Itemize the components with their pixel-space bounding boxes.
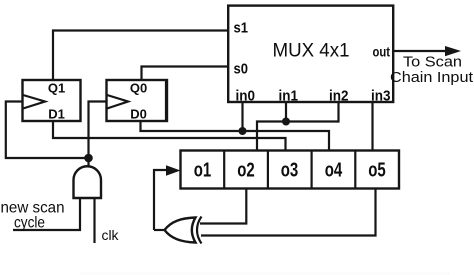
register cell divider o2/o3: [267, 151, 269, 189]
wire D1 to o3 top: [53, 121, 286, 151]
flip-flop FF1 body: [23, 80, 81, 121]
wire in2 to o2 top: [257, 102, 339, 151]
svg-text:D1: D1: [48, 107, 65, 122]
node junction in1: [282, 118, 290, 126]
svg-text:in3: in3: [371, 88, 391, 105]
svg-text:o5: o5: [368, 160, 386, 182]
wire xor output stub: [154, 229, 165, 231]
svg-text:Q0: Q0: [130, 81, 147, 96]
mux U1 body: [228, 6, 393, 102]
wire and-gate input new scan cycle: [13, 198, 80, 230]
wire clock feedback to FF0: [89, 102, 108, 168]
arrowhead o1 input: [166, 165, 181, 175]
wire o5 bottom to xor bottom input: [201, 189, 376, 236]
svg-text:in0: in0: [236, 88, 256, 105]
svg-text:s0: s0: [234, 61, 249, 78]
wire Q1 to s1: [53, 31, 229, 81]
svg-text:To Scan: To Scan: [403, 55, 462, 71]
svg-text:o2: o2: [237, 160, 255, 182]
node junction in0-D0: [239, 127, 247, 135]
flip-flop FF1 clock wedge: [23, 95, 45, 109]
wire in3 to o5 top: [371, 102, 373, 151]
wire D0 to o4 top: [141, 121, 330, 151]
svg-text:in2: in2: [329, 88, 349, 105]
arrowhead out: [445, 46, 461, 56]
and-gate G1 body: [74, 166, 102, 198]
register cell divider o3/o4: [311, 151, 313, 189]
wire Q0 to s0: [142, 67, 230, 81]
flip-flop FF0 body: [107, 80, 168, 121]
svg-text:o4: o4: [325, 160, 343, 182]
register cell divider o1/o2: [223, 151, 225, 189]
svg-text:out: out: [373, 45, 391, 60]
wire xor output to o1 input: [154, 170, 166, 230]
flip-flop FF0 right border thick: [165, 80, 167, 121]
register cell divider o4/o5: [354, 151, 356, 189]
register chain body: [181, 151, 400, 189]
svg-text:in1: in1: [279, 88, 299, 105]
wire in0 tap: [241, 102, 243, 131]
svg-text:s1: s1: [234, 20, 249, 37]
wire and-gate input clk: [93, 198, 95, 243]
node clock junction: [84, 154, 93, 163]
scan artifact bottom: [80, 273, 450, 275]
svg-text:clk: clk: [102, 228, 119, 243]
svg-text:o3: o3: [281, 160, 299, 182]
wire o2 bottom to xor top input: [200, 189, 246, 224]
svg-text:D0: D0: [130, 107, 147, 122]
svg-text:cycle: cycle: [14, 215, 45, 232]
svg-text:MUX 4x1: MUX 4x1: [273, 41, 350, 62]
xor-gate G2 second arc: [197, 217, 202, 244]
svg-text:Q1: Q1: [48, 81, 65, 96]
flip-flop FF0 clock wedge: [107, 95, 128, 109]
svg-text:Chain Input: Chain Input: [390, 70, 473, 86]
xor-gate G2 body: [165, 218, 196, 243]
wire out to scan chain: [393, 50, 446, 52]
wire in1 tap: [285, 102, 287, 122]
wire clock feedback to FF1: [6, 102, 89, 159]
svg-text:o1: o1: [194, 160, 212, 182]
